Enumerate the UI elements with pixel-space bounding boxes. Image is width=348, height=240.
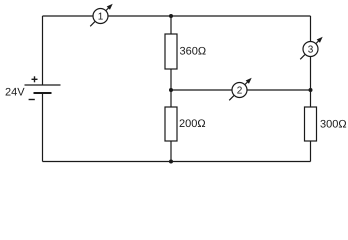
meter 2 [232, 83, 247, 98]
node junction middle [169, 88, 173, 92]
node junction right middle [309, 88, 313, 92]
wire middle branch vertical [170, 16, 172, 162]
battery plus sign [32, 76, 38, 82]
svg-text:300Ω: 300Ω [320, 118, 347, 130]
meter 2 needle [229, 78, 252, 101]
svg-text:200Ω: 200Ω [179, 118, 206, 130]
meter 3 needle [300, 37, 323, 60]
node junction bottom middle [169, 160, 173, 164]
resistor R1 360 ohm [165, 34, 206, 69]
wire right side vertical [310, 16, 312, 107]
wire middle horizontal [171, 89, 311, 91]
svg-text:3: 3 [308, 45, 314, 56]
wire top from battery to right corner [43, 15, 311, 17]
svg-text:24V: 24V [5, 86, 25, 98]
svg-text:1: 1 [98, 12, 104, 23]
wire left above battery [42, 16, 44, 85]
battery B1 24V [5, 76, 61, 99]
wire bottom [43, 161, 311, 163]
meter 3 [303, 42, 318, 57]
resistor R2 200 ohm [165, 107, 206, 141]
meter 1 [93, 9, 108, 24]
meter 1 needle [90, 4, 113, 27]
battery minus sign [29, 99, 35, 101]
svg-text:360Ω: 360Ω [180, 45, 207, 57]
svg-text:2: 2 [237, 86, 243, 97]
wire left below battery [42, 93, 44, 162]
wire right below 300 ohm [310, 141, 312, 162]
node junction top middle [169, 14, 173, 18]
resistor R3 300 ohm [305, 107, 347, 141]
